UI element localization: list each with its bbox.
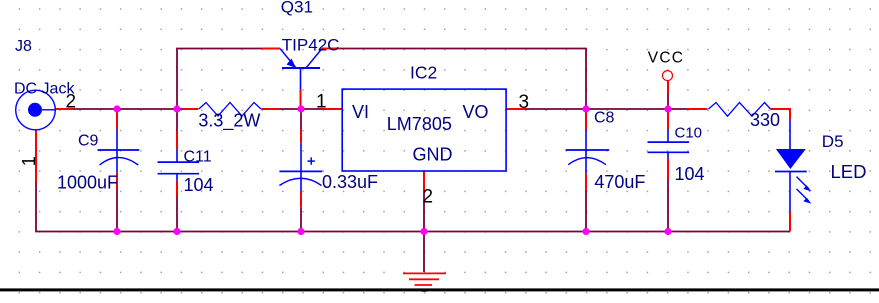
junction ground (420, 228, 427, 235)
wire node 1 to 0.33uF (300, 109, 302, 130)
pin Q31 emitter (262, 48, 280, 50)
wire C9 lower (116, 189, 118, 232)
svg-text:LM7805: LM7805 (387, 114, 452, 134)
svg-text:LED: LED (831, 161, 867, 182)
resistor R 3.3_2W (199, 103, 261, 117)
pin C11 bottom (176, 181, 178, 197)
sheet border line bottom (0, 288, 879, 291)
svg-text:VI: VI (352, 102, 369, 122)
junction C8 bottom (582, 228, 589, 235)
pin cap 0.33uF top (300, 130, 302, 143)
pin R330 left (687, 108, 708, 110)
connector J8 DC jack (16, 90, 56, 130)
wire top rail left segment (177, 49, 262, 110)
svg-text:VCC: VCC (648, 49, 684, 66)
pin C8 top (585, 109, 587, 130)
pin IC2 VI (322, 108, 342, 110)
pin VCC stub (667, 81, 669, 93)
diode D5 LED (775, 119, 811, 211)
svg-text:1: 1 (316, 92, 327, 113)
pin C8 bottom (585, 174, 587, 190)
pin C9 top (116, 109, 118, 129)
wire pin3 to C8 junction (525, 108, 586, 110)
svg-text:VO: VO (463, 102, 489, 122)
svg-text:C11: C11 (184, 149, 212, 166)
pin cap 0.33uF bottom (300, 191, 302, 207)
wire resistor to node 1 (280, 108, 322, 110)
wire bottom bus (36, 182, 790, 232)
svg-text:C10: C10 (675, 124, 703, 141)
junction C11 top (173, 105, 180, 112)
capacitor C11 (158, 149, 200, 181)
svg-text:Q31: Q31 (281, 0, 313, 16)
pin IC2 GND (423, 171, 425, 191)
svg-text:0.33uF: 0.33uF (322, 172, 378, 192)
junction node 1 (297, 105, 304, 112)
svg-text:3: 3 (519, 92, 530, 113)
capacitor 0.33uF (279, 143, 322, 191)
wire 0.33uF cap lower (300, 207, 302, 231)
pin J8.2 stub (56, 108, 74, 110)
pin R 3.3_2W right (261, 108, 280, 110)
wire C10 junction to resistor 330 (668, 108, 687, 110)
wire top rail right segment (340, 49, 586, 110)
resistor R330 (709, 103, 771, 117)
svg-text:104: 104 (184, 175, 214, 195)
wire GND pin to ground (423, 191, 425, 272)
svg-text:TIP42C: TIP42C (282, 36, 340, 55)
junction C9 bottom (113, 228, 120, 235)
capacitor C9 (98, 129, 140, 173)
junction cap 0.33uF bottom (297, 228, 304, 235)
wire VCC to bus (667, 93, 669, 109)
pin C10 bottom (667, 158, 669, 179)
svg-text:330: 330 (750, 110, 780, 130)
transistor Q31 (280, 49, 322, 90)
junction C9 top (113, 105, 120, 112)
svg-text:D5: D5 (822, 132, 844, 151)
svg-text:IC2: IC2 (410, 62, 437, 82)
svg-text:1000uF: 1000uF (57, 172, 118, 192)
pin C11 top (176, 131, 178, 149)
junction C11 bottom (173, 228, 180, 235)
svg-text:2: 2 (423, 187, 434, 208)
svg-text:2: 2 (66, 92, 77, 113)
svg-text:104: 104 (675, 164, 705, 184)
wire main bus jack to C9 (73, 108, 117, 110)
svg-text:C8: C8 (594, 110, 615, 127)
svg-text:3.3_2W: 3.3_2W (198, 110, 260, 131)
svg-text:C9: C9 (78, 133, 99, 150)
wire C11 lower (176, 197, 178, 232)
svg-text:J8: J8 (15, 38, 32, 55)
ground symbol (403, 273, 446, 291)
wire C11 upper (176, 109, 178, 131)
pin Q31 base (300, 89, 302, 109)
junction C10 bottom (664, 228, 671, 235)
wire C10 lower (667, 180, 669, 232)
pin C10 top (667, 109, 669, 129)
svg-text:1: 1 (19, 156, 39, 166)
capacitor C10 (648, 129, 690, 158)
pin R330 right and corner to LED (770, 109, 790, 119)
junction C8 top (582, 105, 589, 112)
pin LED bottom (789, 211, 791, 232)
pin R 3.3_2W left (183, 108, 198, 110)
pin C9 bottom (116, 173, 118, 189)
pin J8.1 stub (35, 130, 37, 182)
capacitor C8 (566, 130, 610, 174)
wire C8 lower (585, 190, 587, 232)
wire main bus C9 to resistor (117, 108, 183, 110)
svg-text:GND: GND (413, 144, 453, 164)
junction VCC (664, 105, 671, 112)
pin IC2 VO (506, 108, 526, 110)
regulator IC2 box (342, 89, 506, 171)
wire C8 to C10 junction (586, 108, 668, 110)
pin Q31 collector (322, 48, 340, 50)
svg-text:470uF: 470uF (594, 172, 645, 192)
power symbol VCC (663, 71, 673, 81)
